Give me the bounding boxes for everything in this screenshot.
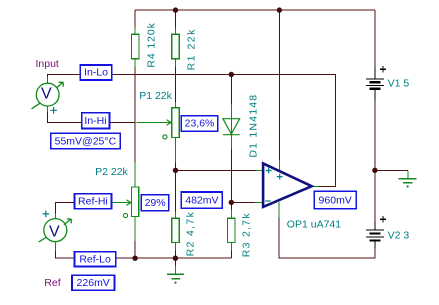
svg-text:R3 2,7k: R3 2,7k [241, 212, 253, 257]
svg-text:Ref: Ref [44, 277, 60, 289]
svg-text:P1 22k: P1 22k [139, 90, 172, 102]
svg-text:482mV: 482mV [185, 195, 218, 207]
svg-text:R2 4,7k: R2 4,7k [185, 211, 197, 257]
svg-text:226mV: 226mV [77, 277, 110, 289]
svg-text:R1 22k: R1 22k [186, 28, 198, 70]
svg-text:OP1 uA741: OP1 uA741 [287, 218, 341, 230]
svg-text:V1 5: V1 5 [388, 78, 410, 90]
svg-text:V: V [49, 224, 60, 241]
svg-text:In-Lo: In-Lo [84, 66, 108, 78]
svg-text:P2 22k: P2 22k [95, 166, 128, 178]
svg-text:29%: 29% [145, 197, 166, 209]
svg-text:23,6%: 23,6% [185, 118, 215, 130]
svg-text:R4 120k: R4 120k [145, 22, 157, 67]
svg-text:Input: Input [36, 58, 59, 70]
svg-text:Ref-Hi: Ref-Hi [78, 196, 108, 208]
svg-text:960mV: 960mV [319, 195, 352, 207]
svg-text:V: V [41, 86, 52, 103]
svg-text:Ref-Lo: Ref-Lo [79, 254, 111, 266]
svg-text:In-Hi: In-Hi [84, 115, 106, 127]
svg-text:V2 3: V2 3 [388, 229, 410, 241]
svg-text:D1 1N4148: D1 1N4148 [247, 94, 259, 158]
svg-text:55mV@25°C: 55mV@25°C [55, 135, 117, 147]
